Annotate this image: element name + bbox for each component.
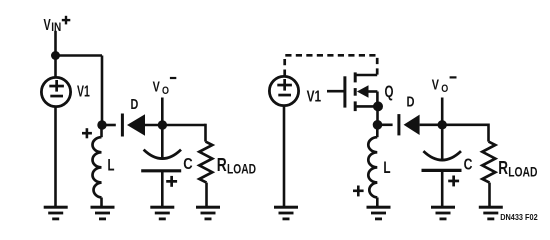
wire RLOAD top lead (left): [204, 124, 207, 142]
ground (under left inductor): [91, 206, 115, 221]
capacitor C (right): [422, 125, 462, 206]
svg-text:LOAD: LOAD: [227, 161, 256, 176]
ground (under right V1): [274, 206, 298, 221]
svg-text:L: L: [108, 157, 115, 175]
svg-text:O: O: [162, 85, 169, 97]
svg-text:R: R: [217, 154, 227, 175]
node junction dot (inductor/diode, right): [373, 120, 383, 130]
wire VO label to node (left): [161, 98, 164, 126]
wire diode to RLOAD corner (left): [145, 124, 206, 127]
label RLOAD (right): [498, 157, 537, 180]
diode D (right) triangle: [404, 115, 420, 135]
label + (bottom of right inductor): [353, 186, 364, 197]
wire V1 bottom to ground (right): [283, 106, 286, 207]
wire V1 bottom to ground: [54, 107, 57, 207]
svg-text:C: C: [183, 156, 193, 173]
inductor L (right): [368, 125, 377, 206]
svg-text:D: D: [131, 96, 139, 113]
wire dashed gate-drive link (right): [285, 55, 378, 75]
wire VO label to node (right): [441, 98, 444, 125]
node VIN+ label: [44, 16, 71, 34]
transistor Q (MOSFET): [327, 72, 383, 111]
svg-text:DN433 F02: DN433 F02: [500, 212, 538, 222]
resistor RLOAD (left): [199, 142, 212, 207]
svg-text:Q: Q: [385, 83, 394, 101]
svg-text:V1: V1: [307, 88, 322, 105]
wire branch vertical down to diode node: [101, 56, 104, 126]
node VO- label (right): [432, 76, 457, 95]
ground (under left capacitor): [150, 206, 174, 221]
ground (under left V1): [44, 206, 68, 221]
svg-text:V: V: [153, 78, 160, 95]
wire diode to RLOAD corner (right): [420, 124, 489, 127]
wire node to diode: [102, 124, 116, 127]
wire VIN vertical to V1 top: [54, 31, 57, 78]
ground (under right capacitor): [431, 206, 455, 221]
svg-text:V: V: [432, 76, 439, 93]
svg-text:L: L: [383, 159, 390, 177]
voltage source V1 (left): [41, 77, 70, 106]
svg-text:V: V: [44, 17, 51, 34]
wire node to diode (right): [378, 124, 393, 127]
ground (under right RLOAD): [479, 206, 503, 221]
svg-text:O: O: [441, 83, 448, 95]
inductor L (left): [92, 125, 101, 206]
svg-text:V1: V1: [77, 84, 90, 101]
capacitor C (left): [141, 125, 181, 206]
svg-text:LOAD: LOAD: [508, 165, 537, 180]
svg-text:D: D: [407, 94, 415, 111]
diode D (left) triangle: [127, 114, 145, 135]
label + (under right capacitor): [448, 176, 459, 187]
resistor RLOAD (right): [482, 142, 495, 207]
svg-text:C: C: [464, 157, 473, 174]
node VO- label (left): [153, 77, 177, 97]
voltage source V1 (right): [269, 76, 298, 105]
ground (under right inductor): [367, 206, 391, 221]
ground (under left RLOAD): [196, 206, 220, 221]
wire RLOAD top lead (right): [487, 124, 490, 142]
label + (top of left inductor): [82, 128, 92, 138]
diode D (left) cathode bar: [121, 114, 124, 137]
node junction dot VO (right): [438, 120, 447, 129]
label RLOAD (left): [217, 154, 256, 176]
node junction dot VO (left): [158, 120, 167, 129]
wire VIN branch horizontal: [56, 54, 103, 57]
wire MOSFET source down to node: [376, 106, 379, 124]
node junction dot VIN: [51, 51, 60, 60]
svg-text:R: R: [498, 157, 508, 178]
node junction dot (inductor/diode anode-side, left): [97, 120, 106, 129]
label + (under left capacitor): [166, 176, 177, 187]
diode D (right) cathode bar: [397, 114, 400, 135]
